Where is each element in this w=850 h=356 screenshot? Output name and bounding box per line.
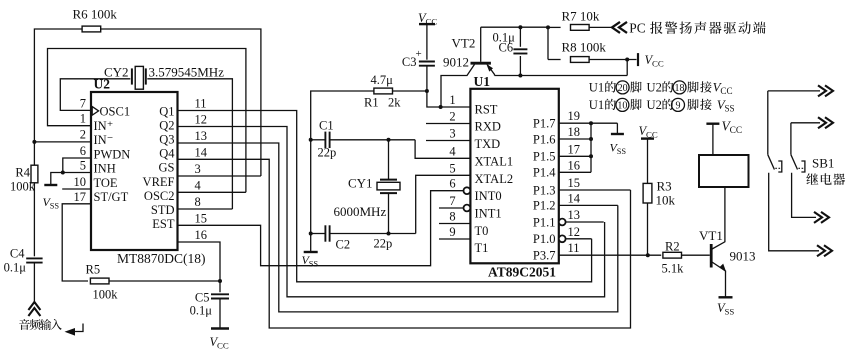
svg-text:4.7μ: 4.7μ [371,73,394,87]
svg-text:16: 16 [195,228,208,242]
svg-text:CC: CC [730,126,743,136]
svg-text:16: 16 [568,158,581,172]
svg-text:12: 12 [568,225,581,239]
svg-text:12: 12 [195,113,208,127]
svg-text:100k: 100k [93,288,119,302]
svg-text:18: 18 [568,125,581,139]
svg-text:14: 14 [568,191,581,205]
svg-text:3.579545MHz: 3.579545MHz [149,65,225,80]
svg-text:P1.2: P1.2 [533,199,556,213]
svg-text:EST: EST [152,217,175,231]
svg-text:INT1: INT1 [475,206,502,220]
svg-text:TXD: TXD [475,137,501,151]
svg-text:P1.3: P1.3 [533,183,556,197]
svg-text:R2: R2 [665,240,680,254]
svg-text:U2: U2 [647,81,662,95]
svg-text:15: 15 [568,176,581,190]
svg-text:5: 5 [80,159,86,173]
svg-text:ST/GT: ST/GT [94,190,129,204]
svg-text:15: 15 [195,211,208,225]
svg-text:C6: C6 [499,41,514,55]
svg-text:10: 10 [74,175,87,189]
svg-text:U1: U1 [589,98,604,112]
svg-text:Q2: Q2 [159,119,174,133]
svg-text:6000MHz: 6000MHz [334,204,387,219]
svg-text:C3: C3 [402,55,417,69]
svg-text:INT0: INT0 [475,189,502,203]
svg-text:13: 13 [568,208,581,222]
svg-text:XTAL1: XTAL1 [475,154,514,168]
svg-text:R7 10k: R7 10k [562,9,600,24]
svg-text:R6 100k: R6 100k [73,7,118,22]
svg-text:11: 11 [568,241,580,255]
svg-text:C4: C4 [10,247,25,261]
svg-text:2: 2 [449,110,455,124]
svg-text:SS: SS [725,307,735,317]
svg-text:XTAL2: XTAL2 [475,172,514,186]
svg-text:IN⁺: IN⁺ [94,119,114,133]
svg-text:R3: R3 [657,179,672,194]
svg-text:SS: SS [617,147,627,156]
svg-text:17: 17 [74,190,87,204]
svg-text:6: 6 [449,177,455,191]
svg-text:IN⁻: IN⁻ [94,133,114,147]
svg-text:10: 10 [617,100,627,111]
svg-text:CC: CC [652,59,664,69]
svg-text:VT1: VT1 [699,228,723,243]
svg-text:P1.0: P1.0 [533,232,556,246]
svg-text:AT89C2051: AT89C2051 [488,265,556,280]
svg-text:Q1: Q1 [159,105,174,119]
svg-text:PC: PC [629,21,645,36]
svg-text:5.1k: 5.1k [662,262,685,276]
svg-text:3: 3 [195,162,201,176]
svg-text:14: 14 [195,145,208,159]
svg-text:MT8870DC(18): MT8870DC(18) [117,251,206,266]
svg-text:9013: 9013 [730,249,756,264]
svg-text:CC: CC [720,86,732,96]
svg-text:R8 100k: R8 100k [562,40,607,55]
svg-text:INH: INH [94,162,116,176]
svg-text:4: 4 [449,144,456,158]
svg-text:RST: RST [475,102,498,116]
svg-text:17: 17 [568,142,581,156]
svg-text:18: 18 [675,83,685,94]
svg-text:9: 9 [676,100,681,111]
svg-text:6: 6 [80,144,86,158]
svg-text:2: 2 [80,128,86,142]
svg-text:T1: T1 [475,241,489,255]
svg-text:OSC1: OSC1 [100,105,131,119]
svg-text:11: 11 [195,97,207,111]
svg-text:VREF: VREF [143,175,175,189]
svg-text:8: 8 [195,195,201,209]
svg-text:SS: SS [50,202,60,211]
svg-text:C2: C2 [336,238,351,252]
svg-text:20: 20 [618,83,628,94]
svg-text:22p: 22p [374,237,393,251]
svg-text:7: 7 [80,96,86,110]
svg-text:10k: 10k [656,193,676,208]
svg-text:1: 1 [449,93,455,107]
svg-text:0.1μ: 0.1μ [4,261,27,275]
svg-text:7: 7 [449,194,455,208]
svg-text:U1: U1 [589,81,604,95]
svg-text:100k: 100k [10,180,36,194]
svg-text:4: 4 [195,179,202,193]
svg-text:P1.1: P1.1 [533,215,556,229]
svg-text:5: 5 [449,161,455,175]
svg-text:VT2: VT2 [452,36,476,51]
svg-text:3: 3 [449,127,455,141]
svg-text:Q3: Q3 [159,133,174,147]
svg-text:SS: SS [725,104,735,114]
svg-text:1: 1 [80,112,86,126]
svg-text:RXD: RXD [475,120,501,134]
svg-text:19: 19 [568,109,581,123]
svg-text:C5: C5 [195,291,210,305]
svg-text:P1.7: P1.7 [533,117,556,131]
svg-text:CC: CC [217,341,229,351]
svg-text:C1: C1 [319,119,334,133]
svg-text:Q4: Q4 [159,147,175,161]
svg-text:SB1: SB1 [812,156,834,171]
svg-text:P3.7: P3.7 [533,249,556,263]
svg-text:GS: GS [159,161,175,175]
svg-text:9012: 9012 [443,55,469,70]
svg-text:R1 2k: R1 2k [364,96,401,110]
svg-text:CY2: CY2 [104,65,129,80]
svg-text:22p: 22p [318,146,337,160]
svg-text:U1: U1 [474,74,491,89]
svg-text:8: 8 [449,210,455,224]
svg-text:+: + [416,48,422,60]
svg-text:STD: STD [151,203,175,217]
svg-text:0.1μ: 0.1μ [190,304,213,318]
svg-text:U2: U2 [647,98,662,112]
svg-text:R5: R5 [86,263,101,277]
svg-text:9: 9 [449,225,455,239]
svg-text:P1.5: P1.5 [533,150,556,164]
svg-text:P1.4: P1.4 [533,166,556,180]
svg-text:OSC2: OSC2 [144,189,175,203]
svg-text:CY1: CY1 [348,176,373,191]
svg-text:13: 13 [195,129,208,143]
svg-text:R4: R4 [15,166,30,180]
svg-text:SS: SS [309,260,319,269]
svg-text:P1.6: P1.6 [533,132,556,146]
svg-text:PWDN: PWDN [94,147,131,161]
svg-text:T0: T0 [475,224,489,238]
svg-text:TOE: TOE [94,176,118,190]
